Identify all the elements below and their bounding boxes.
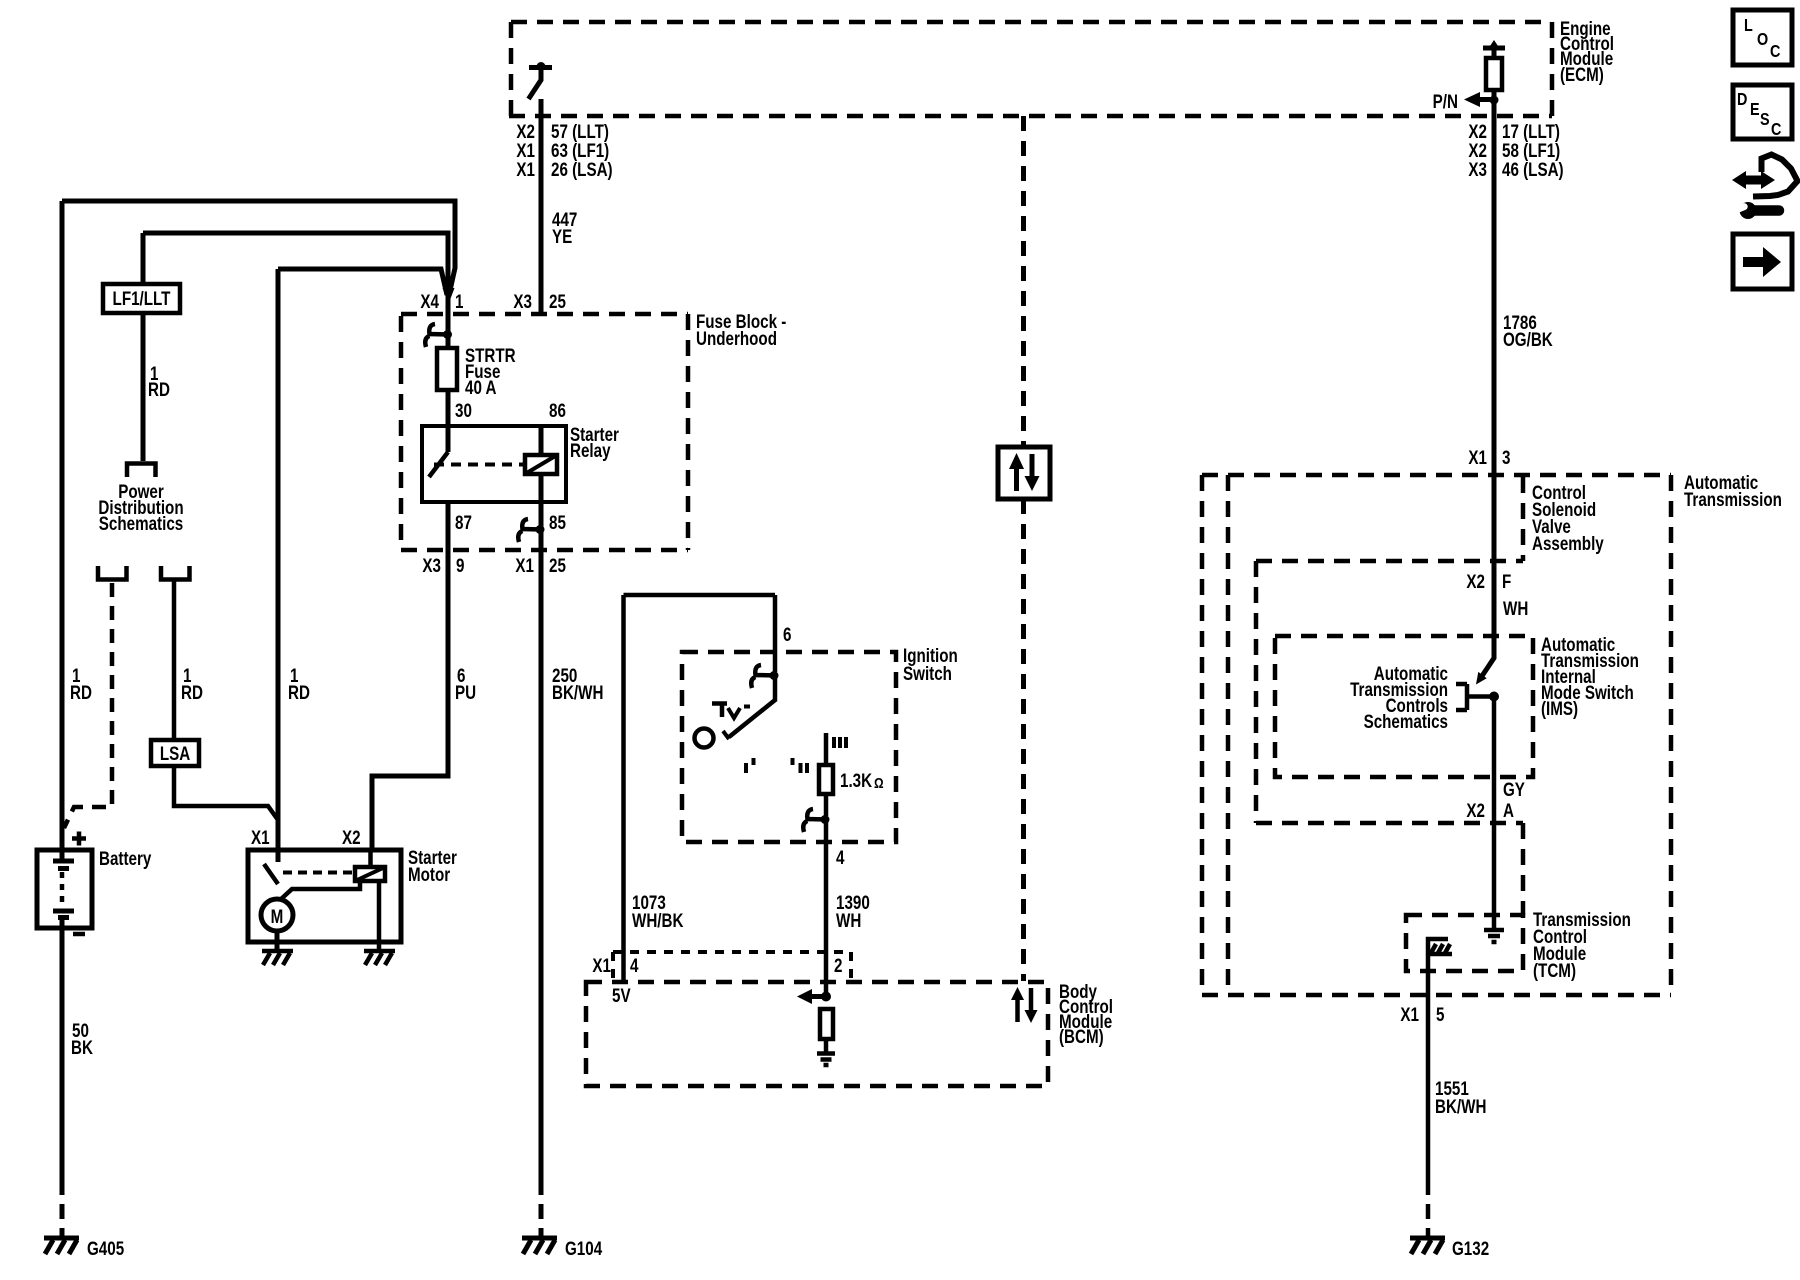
wire starter motor feed 1 RD (third run) [278,269,447,295]
svg-text:25: 25 [549,290,566,312]
inline connector hook at X4-1 [425,324,452,347]
BCM dashed box [586,982,1048,1086]
starter relay box [422,426,566,502]
ignition key glyph [712,704,750,719]
wire solenoid coil to ground [377,881,382,950]
inline connector hook ignition feed [751,665,778,688]
svg-text:40 A: 40 A [465,376,497,398]
svg-text:D: D [1737,90,1748,110]
TCM label [1533,908,1631,981]
starter motor connector labels X1 X2 [251,826,361,848]
svg-text:6: 6 [783,623,791,645]
svg-text:X3: X3 [513,290,532,312]
resistor 1.3K in ignition switch [819,733,884,816]
inner dashed boundary line [1226,475,1231,995]
wire BCM 5V feed to ignition switch [624,593,776,598]
AT label [1684,471,1782,510]
svg-text:X3: X3 [422,554,441,576]
svg-text:E: E [1750,100,1760,120]
ground G405 [44,1237,125,1259]
svg-text:X1: X1 [1468,446,1487,468]
starter motor box [248,850,401,942]
ground starter motor right [364,951,395,965]
svg-text:9: 9 [456,554,464,576]
IMS dashed box [1275,636,1533,777]
label 50 BK [71,1019,93,1058]
LF1/LLT box [103,284,180,313]
svg-text:Underhood: Underhood [696,327,777,349]
wire 1073 WH/BK drop to BCM [621,595,626,984]
wire 1 RD starter X1 drop [276,269,281,862]
motor M [261,899,293,931]
wire relay 87 down [446,502,451,550]
dashed branch from power distribution to battery positive [64,583,112,828]
ECM right pin labels X2 17 / X2 58 / X3 46 [1468,120,1563,180]
label 447 YE [552,208,577,247]
BCM connector pin labels [592,954,842,976]
svg-text:PU: PU [455,681,476,703]
BCM pull-down resistor [820,1009,833,1052]
svg-text:YE: YE [552,225,572,247]
wire relay 85 down [539,502,544,550]
wire ECM to BCM serial data (dashed) [1021,116,1026,447]
svg-text:25: 25 [549,554,566,576]
svg-text:X1: X1 [515,554,534,576]
svg-text:26 (LSA): 26 (LSA) [551,158,613,180]
svg-text:3: 3 [1502,446,1510,468]
wire 1786 OG/BK (ECM to transmission) [1492,116,1497,475]
svg-text:RD: RD [181,681,203,703]
mode switch boundary dashed box [1256,561,1523,915]
starter solenoid dashed link [283,871,353,875]
IMS fixed contact junction [1456,684,1499,710]
svg-text:5: 5 [1436,1003,1445,1025]
svg-text:X1: X1 [516,158,535,180]
BCM X1 connector strip (fine dashed) [613,952,851,978]
svg-text:C: C [1770,42,1781,62]
svg-text:X1: X1 [1400,1003,1419,1025]
ignition switch dashed box [682,652,896,842]
ECM internal switch (crank relay control) [529,62,553,99]
wire LF1/LLT drop [141,233,146,284]
svg-text:WH: WH [1503,597,1528,619]
ignition position mark III [834,737,846,748]
svg-text:P/N: P/N [1433,90,1458,112]
ignition switch rotor arm [695,675,776,748]
svg-text:LSA: LSA [160,742,190,764]
wire fuse to relay pin 30 [446,390,451,426]
TCM earth ground [1484,930,1504,942]
svg-text:G104: G104 [565,1237,603,1259]
splice arrow into X4-1 [443,288,455,304]
svg-text:30: 30 [455,399,472,421]
connector labels X2 F [1466,570,1511,592]
label 6 PU [455,664,476,703]
icon forward arrow box [1733,234,1792,289]
power distribution output connector left [98,566,127,580]
starter internal wire blade to coil [280,881,360,900]
wire LSA feed 1 RD [172,581,177,740]
CSVA label [1532,481,1604,554]
BCM label [1059,980,1113,1047]
relay contact blade [429,426,448,477]
label 1786 OG/BK [1503,311,1553,350]
Control Solenoid Valve Assembly dashed edges [1256,477,1523,561]
starter solenoid contact blade [264,864,278,884]
svg-text:L: L [1744,16,1753,36]
power distribution label [98,480,183,534]
svg-text:(BCM): (BCM) [1059,1025,1104,1047]
svg-text:X2: X2 [1466,799,1485,821]
ECM left pin labels X2 57 / X1 63 / X1 26 [516,120,612,180]
svg-text:Assembly: Assembly [1532,532,1604,554]
TCM chassis ground [1428,939,1452,971]
wire 6 PU (relay 87 to starter X2) [372,550,448,850]
BCM serial data arrows [1011,987,1038,1023]
svg-text:X3: X3 [1468,158,1487,180]
wire LF1 LLT feed 1 RD (second run) [143,233,448,294]
resistor ECM P/N pull-up with supply bar [1483,40,1505,116]
ground G104 [522,1237,603,1259]
svg-text:M: M [271,905,284,927]
connector labels X2 A [1466,799,1514,821]
icon data exchange arrow with wrench [1732,155,1798,220]
wire motor to ground [275,931,280,950]
svg-text:G405: G405 [87,1237,125,1259]
svg-text:(ECM): (ECM) [1560,63,1604,85]
svg-text:BK/WH: BK/WH [1435,1095,1486,1117]
svg-text:G132: G132 [1452,1237,1489,1259]
Fuse Block label [696,310,787,349]
wire 50 BK battery to G405 [60,928,65,1180]
battery plus sign [72,832,86,846]
serial data symbol box with arrows [998,447,1050,499]
relay coil [525,426,557,502]
label 1 RD LSA wire [181,664,203,703]
svg-text:LF1/LLT: LF1/LLT [113,287,171,309]
svg-text:WH/BK: WH/BK [632,909,684,931]
svg-text:Switch: Switch [903,662,952,684]
starter motor label [408,846,457,885]
svg-text:C: C [1771,120,1782,140]
svg-text:F: F [1502,570,1511,592]
svg-text:(IMS): (IMS) [1541,697,1578,719]
svg-text:OG/BK: OG/BK [1503,328,1553,350]
wire 250 BK WH (relay 85 to G104) [539,550,544,1180]
svg-text:87: 87 [455,511,472,533]
label 1 RD battery wire [70,664,92,703]
svg-text:BK: BK [71,1036,93,1058]
ECM label [1560,17,1614,85]
svg-text:RD: RD [148,378,170,400]
svg-text:Relay: Relay [570,439,611,461]
icon LOC box [1733,10,1792,65]
BCM earth ground [817,1054,835,1066]
icon DESC box [1733,85,1792,139]
svg-text:WH: WH [836,909,861,931]
svg-text:RD: RD [288,681,310,703]
svg-text:1.3K: 1.3K [840,769,873,791]
connector labels X1 25 below fuse block [515,554,566,576]
IMS switch blade [1476,563,1494,685]
svg-text:4: 4 [630,954,639,976]
wire 1551 BK/WH TCM to G132 [1426,971,1431,1180]
ground starter motor left [262,951,293,965]
battery minus sign [73,932,85,937]
label 1551 BK/WH [1435,1077,1486,1117]
wire ignition feed drop [773,595,778,672]
P/N arrow output [1433,90,1499,112]
svg-text:1: 1 [455,290,464,312]
wire X4-1 into fuse [446,294,451,348]
svg-text:86: 86 [549,399,566,421]
svg-text:X1: X1 [251,826,270,848]
label 250 BK/WH [552,664,603,703]
ignition position mark II [793,758,808,773]
svg-text:Motor: Motor [408,863,450,885]
TCM dashed box [1406,915,1523,971]
battery cells [53,850,74,928]
fuse STRTR 40A [437,348,457,390]
svg-text:85: 85 [549,511,566,533]
svg-text:Transmission: Transmission [1684,488,1782,510]
svg-text:Schematics: Schematics [99,512,183,534]
svg-text:BK/WH: BK/WH [552,681,603,703]
svg-text:X2: X2 [342,826,361,848]
power distribution input connector [127,464,156,478]
relay actuating dashed link [434,463,525,467]
svg-text:RD: RD [70,681,92,703]
wire battery positive feed 1 RD (top run) [62,201,455,295]
wire through CSVA [1492,475,1497,563]
svg-text:GY: GY [1503,778,1525,800]
starter solenoid coil [355,850,385,881]
inline connector hook at relay 85 [518,519,544,542]
svg-text:Ω: Ω [874,775,884,792]
label 1 RD starter wire [288,664,310,703]
power distribution output connector right [161,566,190,580]
inline connector hook ignition output [803,809,829,832]
svg-text:S: S [1760,110,1770,130]
wire IMS to TCM (GY A) [1492,696,1497,928]
label 1 RD LF1 wire [148,362,170,400]
wire ECM switch to X2-57 (447 YE feed inside ECM) [539,99,544,116]
label 1390 WH [836,891,870,931]
svg-text:46 (LSA): 46 (LSA) [1502,158,1564,180]
connector labels X4 1 at fuse block top [420,290,463,312]
svg-text:2: 2 [834,954,842,976]
BCM internal arrow at pin 2 [797,989,831,1004]
svg-text:X4: X4 [420,290,439,312]
connector labels X3 25 at fuse block top [513,290,566,312]
svg-text:X1: X1 [592,954,611,976]
svg-text:X2: X2 [1466,570,1485,592]
connector labels X3 9 below fuse block [422,554,464,576]
wire LSA to starter X1 junction [174,766,278,820]
svg-text:(TCM): (TCM) [1533,959,1576,981]
wire 447 YE (ECM X2-57 to fuse block X3-25) [539,116,544,314]
svg-text:Battery: Battery [99,847,152,869]
svg-text:4: 4 [836,846,845,868]
wire 1390 WH to BCM [824,819,829,996]
connector labels X1 3 [1468,446,1510,468]
wire battery negative branch (left column down) [60,201,65,850]
ECM box (Engine Control Module dashed outline) [509,22,1552,116]
Automatic Transmission outer dashed box [1202,475,1671,995]
wire LF1/LLT to power distribution [141,313,146,461]
ignition switch label [903,644,958,684]
ignition position mark I [746,758,754,773]
Fuse Block Underhood dashed box [401,314,688,550]
svg-text:A: A [1503,799,1514,821]
svg-text:5V: 5V [612,984,631,1006]
label 1073 WH/BK [632,891,684,931]
fuse label STRTR Fuse 40 A [465,344,516,398]
IMS label [1541,633,1639,719]
connector labels X1 5 [1400,1003,1444,1025]
ATCS label [1350,662,1448,732]
battery box [37,850,92,928]
ground G132 [1410,1237,1489,1259]
svg-text:O: O [1757,30,1768,50]
LSA box [151,740,199,766]
relay label [570,423,619,461]
svg-text:Schematics: Schematics [1364,710,1448,732]
